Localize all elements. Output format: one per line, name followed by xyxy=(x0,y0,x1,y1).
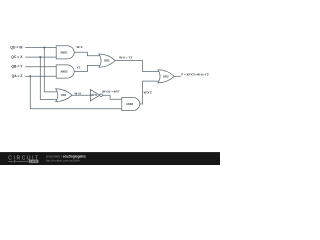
svg-text:YZ: YZ xyxy=(77,66,81,70)
svg-text:W·X: W·X xyxy=(77,45,84,49)
svg-text:W·X + YZ: W·X + YZ xyxy=(119,56,132,60)
wire Z tap down to AND3 input 2 xyxy=(30,76,122,109)
CircuitLab logo battery wire xyxy=(8,160,28,163)
svg-text:QB = Y: QB = Y xyxy=(11,65,23,69)
svg-text:OR2: OR2 xyxy=(104,59,110,63)
svg-text:presented / ecu2logicgates: presented / ecu2logicgates xyxy=(46,155,86,159)
wire AND2 output to OR2 input 2 xyxy=(74,65,100,71)
wire W tap down to OR1 input 1 xyxy=(44,48,59,92)
svg-text:(W+X)' = W'X': (W+X)' = W'X' xyxy=(102,90,120,94)
wire input Y line xyxy=(25,66,56,68)
wire input Z line xyxy=(25,75,56,77)
wire input W line xyxy=(25,47,56,49)
svg-text:W'X'Z: W'X'Z xyxy=(144,91,152,95)
svg-text:F = W'X'Z+W·X+YZ: F = W'X'Z+W·X+YZ xyxy=(181,72,208,76)
svg-text:OR3: OR3 xyxy=(163,74,169,78)
inverter NOT1 triangle xyxy=(90,90,99,101)
AND gate AND2 xyxy=(56,65,74,78)
svg-text:http://circuitlab.com/c/ae2964: http://circuitlab.com/c/ae2964b xyxy=(46,159,81,162)
svg-text:AND1: AND1 xyxy=(60,50,68,54)
svg-text:W+X: W+X xyxy=(75,91,82,95)
watermark bar xyxy=(0,152,220,165)
CircuitLab logo LAB badge xyxy=(29,160,39,164)
AND gate AND3 xyxy=(122,97,140,110)
OR gate OR1 xyxy=(56,89,72,102)
svg-text:OR1: OR1 xyxy=(61,93,67,97)
OR gate OR2 xyxy=(99,54,115,67)
wire OR2 output to OR3 input 1 xyxy=(115,61,160,72)
svg-text:LAB: LAB xyxy=(30,160,38,164)
node junction on W line xyxy=(43,46,45,48)
node junction on X line xyxy=(39,56,41,58)
node junction on Z line xyxy=(29,75,31,77)
wire NOT1 output to AND3 input 1 xyxy=(102,95,122,99)
OR gate OR3 xyxy=(158,70,174,83)
wire input X line xyxy=(25,56,56,58)
AND gate AND1 xyxy=(56,46,74,59)
wire AND3 output up to OR3 input 2 xyxy=(140,81,161,104)
svg-text:NOT1: NOT1 xyxy=(90,93,97,97)
wire X tap down to OR1 input 2 xyxy=(40,57,59,99)
svg-text:QC = X: QC = X xyxy=(11,55,23,59)
svg-text:QA = Z: QA = Z xyxy=(12,74,23,78)
wire OR1 output to NOT1 input xyxy=(72,94,90,96)
svg-text:AND3: AND3 xyxy=(126,102,134,106)
svg-text:QD = W: QD = W xyxy=(10,45,23,49)
wire AND1 output to OR2 input 1 xyxy=(74,52,100,56)
inverter NOT1 bubble xyxy=(100,94,103,97)
wire OR3 output F xyxy=(174,75,180,77)
svg-text:AND2: AND2 xyxy=(60,70,68,74)
